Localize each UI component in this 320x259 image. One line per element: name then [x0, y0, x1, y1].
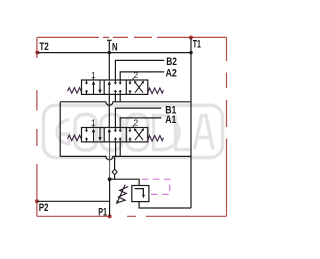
wire N down to valve V2: [108, 40, 110, 80]
svg-text:P2: P2: [39, 202, 49, 214]
junction dot T1/T: [189, 51, 192, 54]
svg-text:1: 1: [91, 70, 96, 80]
position label ticks V2: [93, 78, 133, 80]
relief valve adjustable spring: [118, 185, 129, 203]
relief valve internal path: [135, 189, 144, 196]
valve V2 spring right: [148, 88, 164, 94]
neutral blocked stubs: [114, 80, 116, 82]
valve V1 body: [82, 128, 148, 142]
svg-text:2: 2: [134, 70, 139, 80]
left border: [36, 37, 38, 216]
wire A1: [120, 118, 161, 128]
port dot P1: [108, 214, 112, 218]
svg-text:1: 1: [91, 118, 96, 128]
red boundary frame (block outline): [37, 37, 227, 216]
port dot T1: [189, 36, 193, 40]
top border: [37, 36, 226, 38]
position 2 blocked stubs: [129, 80, 131, 82]
wire left tank gallery: [59, 102, 61, 157]
wire bypass V2 to V1: [108, 94, 110, 127]
wire check valve branch: [114, 156, 116, 179]
valve V2 body: [82, 80, 148, 94]
position 2 crossed arrows: [135, 82, 143, 92]
svg-text:A2: A2: [166, 67, 177, 79]
right border: [226, 37, 228, 216]
node N cap: [107, 39, 112, 41]
wire relief inlet: [110, 179, 140, 185]
valve V1 spring right: [148, 136, 164, 142]
junction dot N/T: [108, 51, 111, 54]
watermark GRANIT logo: [44, 105, 223, 157]
pilot line (dashed): [142, 179, 170, 194]
wire B1: [115, 108, 161, 127]
port dot P2: [35, 199, 39, 203]
relief valve arrowhead: [142, 195, 145, 199]
svg-text:P1: P1: [98, 206, 107, 218]
position 1 down arrow: [99, 80, 101, 90]
wire V1 tank stubs: [116, 142, 121, 157]
wire V2 tank stubs: [115, 94, 120, 101]
valve V1 internals: [85, 128, 144, 142]
position 1 up arrow: [93, 84, 95, 94]
svg-text:2: 2: [134, 118, 139, 128]
wire A2: [120, 72, 164, 80]
position 1 blocked stubs: [86, 80, 88, 82]
wire tank line lower with hop: [60, 156, 191, 160]
svg-text:N: N: [112, 41, 118, 53]
relief valve RV body: [132, 186, 149, 202]
position label ticks V1: [93, 125, 133, 127]
check valve diamond: [112, 169, 117, 175]
valve V1 spring left: [68, 135, 82, 141]
wire T1 vertical: [190, 38, 192, 209]
port dot T2: [35, 51, 39, 55]
junction dot P/relief: [108, 177, 112, 181]
valve V2 internals: [85, 80, 144, 94]
wire tank line upper with hop: [60, 102, 191, 106]
wire pump line P1 riser: [109, 142, 111, 179]
svg-text:B2: B2: [166, 56, 177, 68]
neutral bypass arrow: [108, 84, 110, 94]
svg-text:T2: T2: [39, 41, 48, 53]
wire P2 line: [37, 200, 110, 202]
wire T2-T1 top tank line: [37, 52, 191, 54]
svg-text:T1: T1: [193, 39, 201, 51]
wire relief outlet to tank: [139, 202, 191, 208]
svg-text:A1: A1: [165, 114, 176, 126]
bottom border: [37, 215, 227, 217]
wire B2: [115, 60, 164, 80]
valve V2 spring left: [68, 88, 82, 94]
